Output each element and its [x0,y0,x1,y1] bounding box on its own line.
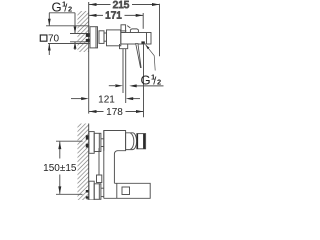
dimension 178 left arrow [89,110,97,113]
body main bar (side view) [121,33,151,45]
escutcheon plate (side view) [90,27,98,48]
lower union escutcheon (bottom view) [89,181,94,200]
upper union escutcheon (bottom view) [89,132,94,154]
wall section (bottom view) hatched band [78,124,89,201]
upper union connector lines [101,138,104,140]
wall face extension line down to dimension rows [88,52,90,114]
dimension 121 right outside arrow [132,98,140,100]
dimension 150±15 up arrow [58,142,61,150]
dimension 150±15 lower extension line [56,193,83,195]
body cartridge block (side view) [107,30,121,46]
lower union connector lines [101,187,104,189]
dimension 150±15 vertical line upper segment [59,142,61,159]
label G 1/2 bottom-right leader underline [134,85,164,87]
dim 70 up arrow below [48,44,50,56]
spout left inner edge [116,183,118,198]
union nut (side view) [99,31,104,44]
svg-text:70: 70 [48,33,60,44]
dimension 150±15 upper extension line [56,140,83,142]
dim 70 down arrow above [48,13,50,26]
escutcheon inner edge line [95,27,97,48]
lever handle cube end (bottom view) [137,134,146,149]
supply pipe in wall (top line) [70,33,90,35]
square escutcheon dim: top line [46,25,90,27]
dimension 150±15 down arrow [58,186,61,194]
top plug on body [121,25,126,33]
label G 1/2 leader down arrow to supply pipe [74,13,76,34]
pipe dimension up arrow below [74,42,76,50]
dimension 121 left outside arrow [71,98,82,100]
dimension 215 left arrow [89,3,97,6]
dimension 215 right arrow [152,3,160,6]
outlet pointer stub line [109,85,115,87]
label G 1/2 bottom right text [141,72,162,87]
supply pipe in wall (bottom line) [70,41,90,43]
inner step block left of spout [98,148,100,175]
lower union supply pipe dark stubs in wall [86,190,89,193]
svg-text:215: 215 [113,0,130,11]
outlet pipe line right [125,49,127,103]
body arm (bottom view) [104,131,126,151]
body vertical bar (bottom view) [103,131,105,199]
label square-70: square symbol [40,35,47,41]
dimension 150±15 vertical line lower segment [59,175,61,194]
svg-text:2: 2 [157,78,161,87]
small diagonal tick on body top [127,26,130,28]
lever D cap (bottom view) [126,133,137,150]
top plug flange line [120,30,126,32]
wall section (side view) hatched band [78,11,89,52]
lower union nut (bottom view) [94,184,101,200]
body right end cap line [146,33,148,45]
upper union supply pipe dark stubs in wall [86,135,89,139]
dimension 171 right arrow [136,14,144,17]
dimension 171 line [89,14,143,16]
lever cube dark left edge [137,134,138,149]
dimension 215 line [89,4,160,6]
upper union nut (bottom view) [94,133,101,151]
lever cap inner arc [131,133,134,149]
low dome on body top [130,29,138,33]
dimension 178 right arrow [136,110,144,113]
svg-text:G: G [141,73,151,88]
outlet stub below body [120,44,128,49]
svg-text:121: 121 [98,94,115,105]
lever cube dark right edge [143,134,145,149]
upper union nut inner edge [98,133,100,151]
dimension 171 extension line [142,13,144,29]
supply pipe wall stubs (dark) [86,34,90,37]
wall face line (bottom view) [88,124,90,201]
aerator square on spout [122,187,130,195]
lever handle (side view, thin wedge) [136,44,141,68]
wall face line (side view) [88,2,90,52]
leader for G 1/2 lower right to outlet boss [146,45,156,71]
outlet pipe line left [122,49,124,93]
label G 1/2 top left text [52,0,73,15]
svg-text:2: 2 [68,5,72,14]
spout block (bottom view) [104,183,150,198]
dimension 178 extension line (body bottom to dim row) [143,44,145,117]
label G 1/2 top-left leader underline [49,12,75,14]
dimension 215 text [111,0,133,9]
union connector (side view) [104,33,107,41]
square escutcheon dim: bottom line [48,43,90,45]
dimension 171 text [103,11,125,20]
dimension 178 text [104,107,126,116]
svg-text:178: 178 [106,107,123,118]
outlet pointer arrow (points right at pipe) [115,84,123,87]
label G 1/2 leader arrow pointing left at outlet pipe [129,84,137,87]
dimension 215 extension line at lever tip [159,4,161,57]
dark outlet boss under body right [141,41,144,43]
dimension 171 left arrow [89,14,97,17]
svg-text:150±15: 150±15 [43,163,77,174]
lower union nut inner edge [98,184,100,200]
svg-text:171: 171 [105,11,122,22]
dimension 178 line [89,111,144,113]
